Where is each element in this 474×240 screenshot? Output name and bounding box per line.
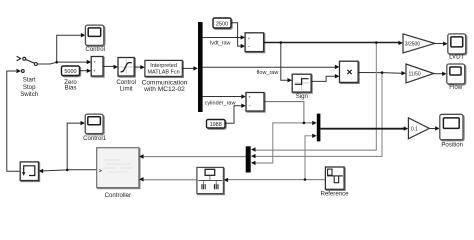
wire: branch down to mux3 input 3	[251, 123, 304, 165]
wire: gain 0.1 to Position scope	[429, 126, 439, 130]
wire: Control Limit to MATLAB Fcn	[134, 65, 145, 69]
constant 5000 Zero Bias	[62, 66, 80, 76]
wire: display block to Controller lower input	[139, 177, 197, 181]
svg-text:Limit: Limit	[120, 86, 133, 93]
wire: 2500 constant to sum1 minus	[231, 23, 245, 49]
svg-text:flow_raw: flow_raw	[257, 70, 279, 76]
svg-text:−: −	[248, 44, 251, 49]
gain 3/2500	[403, 34, 435, 53]
wire: product output to gain 11/50	[358, 71, 406, 75]
wire: lvdt_raw demux to sum1	[203, 35, 246, 39]
svg-text:Controller: Controller	[105, 192, 131, 199]
svg-text:Position: Position	[441, 141, 463, 148]
scope Control	[85, 25, 103, 45]
svg-text:Bias: Bias	[65, 85, 77, 92]
interpreted MATLAB Fcn	[145, 60, 182, 76]
svg-text:Flow: Flow	[449, 84, 462, 91]
wire: sum A to Control Limit	[103, 65, 118, 69]
sign block	[292, 74, 311, 92]
wire: sum2 output to mux2	[264, 102, 317, 126]
svg-text:with MC12-02: with MC12-02	[143, 86, 185, 93]
junction: lvdt to mux3 branch node	[375, 41, 378, 44]
scope Flow	[447, 64, 465, 84]
junction: controller output node	[66, 169, 69, 172]
svg-text:+: +	[248, 94, 251, 99]
junction: lvdt to sign branch node	[280, 41, 283, 44]
wire: 5000 constant to sum A	[80, 69, 92, 73]
wire: mux3 output to Controller upper input	[139, 154, 246, 158]
svg-text:Control: Control	[85, 46, 105, 53]
wire: 1988 constant to sum2 minus	[225, 104, 246, 124]
wire: branch down to Sign	[281, 43, 292, 83]
wire: MATLAB Fcn to demux	[182, 66, 198, 70]
svg-text:cylinder_raw: cylinder_raw	[205, 100, 236, 106]
gain 11/50	[406, 64, 434, 83]
svg-text:Interpreted: Interpreted	[150, 63, 177, 69]
wire: Controller output	[67, 169, 97, 171]
svg-text:Reference: Reference	[320, 191, 349, 198]
wire: to sum A top input	[57, 60, 91, 64]
wire: gain 11/50 to Flow scope	[434, 72, 447, 76]
mux3 bar flipped	[246, 146, 251, 172]
wire: to Control scope	[57, 33, 86, 62]
wire: gain 3/2500 to LVDT scope	[435, 42, 448, 46]
scope LVDT	[448, 34, 466, 54]
wire: reference branch up to mux2 input 2	[305, 134, 317, 180]
wire: branch up to Control1 scope	[67, 121, 85, 170]
saturation Control Limit	[118, 58, 134, 77]
product	[340, 61, 359, 82]
svg-text:1988: 1988	[210, 122, 222, 128]
constant 2500	[213, 18, 231, 28]
svg-text:+: +	[248, 36, 251, 41]
svg-text:5000: 5000	[64, 69, 76, 75]
svg-text:11/50: 11/50	[409, 71, 421, 77]
scope Position	[440, 114, 463, 139]
svg-text:+: +	[93, 69, 96, 74]
sum1	[245, 33, 264, 52]
junction: switch output node	[55, 61, 58, 64]
junction: sum2 branch node	[303, 122, 306, 125]
controller subsystem	[97, 148, 139, 188]
display block	[197, 167, 224, 193]
junction: product branch node	[381, 71, 384, 74]
wire: mux2 output to gain 0.1 (vector bold)	[321, 126, 409, 130]
mux2 bar flipped	[317, 114, 321, 142]
svg-text:0.1: 0.1	[411, 126, 418, 132]
sum A	[91, 57, 103, 77]
wire: Reference output to display block	[224, 178, 327, 182]
svg-text:2500: 2500	[216, 21, 228, 27]
constant 1988	[207, 120, 226, 129]
manual switch Start Stop Switch	[17, 56, 38, 72]
wire: switch output	[37, 62, 56, 64]
demux bar	[198, 22, 203, 112]
svg-text:3/2500: 3/2500	[405, 41, 421, 47]
loop block	[20, 162, 38, 181]
wire: branch to loop block	[39, 169, 67, 173]
wire: cylinder_raw demux to sum2	[203, 94, 246, 98]
svg-text:Switch: Switch	[20, 91, 38, 98]
wire: lvdt branch down to mux3 input 1	[251, 43, 376, 152]
scope Control1	[85, 114, 103, 134]
svg-text:MATLAB Fcn: MATLAB Fcn	[147, 69, 179, 75]
wire: sum1 output to gain 3/2500	[264, 41, 403, 45]
wire: Sign output to product	[311, 74, 339, 81]
wire: flow_raw demux to product	[203, 65, 340, 69]
gain 0.1	[408, 118, 429, 139]
wire: product branch down to mux3 input 2	[251, 73, 382, 159]
junction: reference branch node	[304, 178, 307, 181]
reference subsystem	[325, 167, 344, 189]
svg-text:Start: Start	[23, 77, 36, 84]
wire: loop block output feedback to switch	[7, 69, 21, 171]
svg-text:LVDT: LVDT	[449, 54, 464, 61]
sum2	[246, 93, 264, 112]
svg-text:lvdt_raw: lvdt_raw	[210, 41, 231, 47]
svg-text:−: −	[248, 103, 251, 108]
svg-text:Sign: Sign	[296, 93, 308, 100]
svg-text:+: +	[93, 60, 96, 65]
svg-text:Control1: Control1	[83, 135, 107, 142]
